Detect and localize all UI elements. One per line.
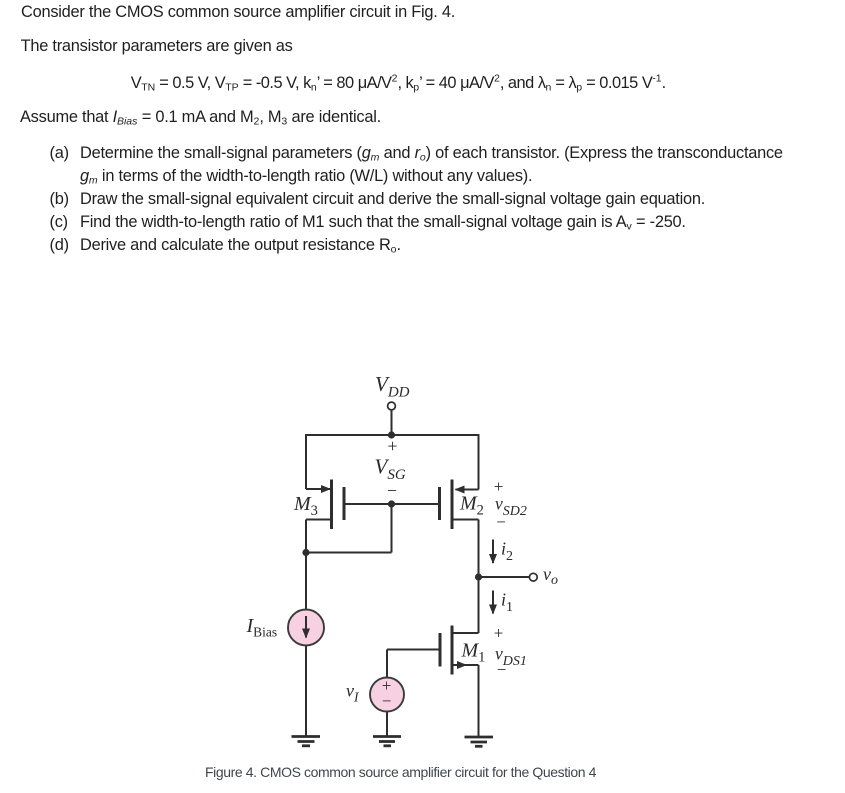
ground vI bbox=[373, 737, 401, 746]
wire right rail lower bbox=[478, 577, 480, 633]
svg-text:+: + bbox=[494, 624, 504, 643]
svg-text:−: − bbox=[387, 481, 397, 501]
svg-text:−: − bbox=[382, 692, 392, 711]
arrow i1 bbox=[492, 591, 494, 614]
wire right rail upper bbox=[478, 434, 480, 489]
svg-text:i1: i1 bbox=[501, 590, 513, 616]
node output junction bbox=[475, 573, 482, 580]
arrow i2 bbox=[492, 540, 494, 564]
wire IBias stem lower bbox=[305, 646, 307, 737]
wire left rail lower bbox=[305, 520, 307, 611]
svg-text:vo: vo bbox=[543, 564, 558, 588]
svg-text:M2: M2 bbox=[459, 493, 484, 519]
svg-text:M3: M3 bbox=[293, 493, 318, 519]
ground IBias bbox=[292, 737, 321, 746]
list item d bbox=[50, 237, 69, 254]
figure caption bbox=[205, 764, 596, 781]
wire M1 source lead bbox=[453, 664, 466, 666]
terminal vo bbox=[529, 573, 537, 581]
svg-text:M1: M1 bbox=[461, 640, 486, 666]
wire right rail mid bbox=[478, 520, 480, 578]
wire vI stem upper bbox=[386, 650, 388, 678]
terminal VDD bbox=[388, 402, 396, 410]
transistor M3 channel bar bbox=[330, 480, 333, 530]
current source IBias bbox=[288, 610, 324, 646]
assume line bbox=[20, 109, 381, 126]
svg-text:vI: vI bbox=[346, 681, 360, 705]
svg-text:i2: i2 bbox=[501, 539, 513, 565]
wire M2 source lead bbox=[456, 489, 479, 491]
svg-text:VDD: VDD bbox=[375, 372, 410, 401]
wire diode-connection vertical bbox=[391, 504, 393, 553]
transistor M1 gate bar bbox=[439, 633, 442, 667]
list item a bbox=[50, 145, 69, 162]
svg-text:−: − bbox=[497, 660, 507, 679]
transistor M3 gate bar bbox=[343, 487, 346, 520]
formula line bbox=[131, 75, 666, 92]
svg-text:IBias: IBias bbox=[246, 615, 278, 640]
node M3 drain junction bbox=[302, 549, 309, 556]
wire output bbox=[479, 576, 530, 578]
wire gate rail M3-M2 bbox=[346, 503, 439, 505]
list item c bbox=[50, 214, 68, 231]
transistor M2 channel bar bbox=[451, 480, 454, 530]
list item b bbox=[50, 191, 69, 208]
wire diode-connection horizontal bbox=[306, 552, 392, 554]
wire M3 drain lead bbox=[306, 519, 331, 521]
paragraph line 1 bbox=[21, 4, 455, 21]
transistor M2 gate bar bbox=[438, 487, 441, 520]
node VDD junction bbox=[388, 431, 395, 438]
wire M1 drain lead bbox=[453, 632, 479, 634]
wire right rail bottom bbox=[478, 665, 480, 737]
svg-text:VSG: VSG bbox=[375, 455, 406, 484]
node gate junction bbox=[388, 500, 395, 507]
wire left rail upper bbox=[305, 434, 307, 489]
wire VDD stem bbox=[391, 410, 393, 435]
wire M1 gate lead bbox=[387, 649, 439, 651]
wire M3 source lead bbox=[306, 488, 330, 490]
ground M1 source bbox=[465, 737, 494, 746]
paragraph line 2 bbox=[21, 38, 293, 55]
wire top rail bbox=[306, 434, 479, 436]
svg-text:−: − bbox=[496, 513, 506, 532]
voltage source vI bbox=[370, 676, 404, 712]
transistor M1 channel bar bbox=[451, 626, 454, 675]
svg-text:+: + bbox=[387, 436, 397, 456]
wire M2 drain lead bbox=[453, 519, 479, 521]
wire vI stem lower bbox=[386, 712, 388, 737]
